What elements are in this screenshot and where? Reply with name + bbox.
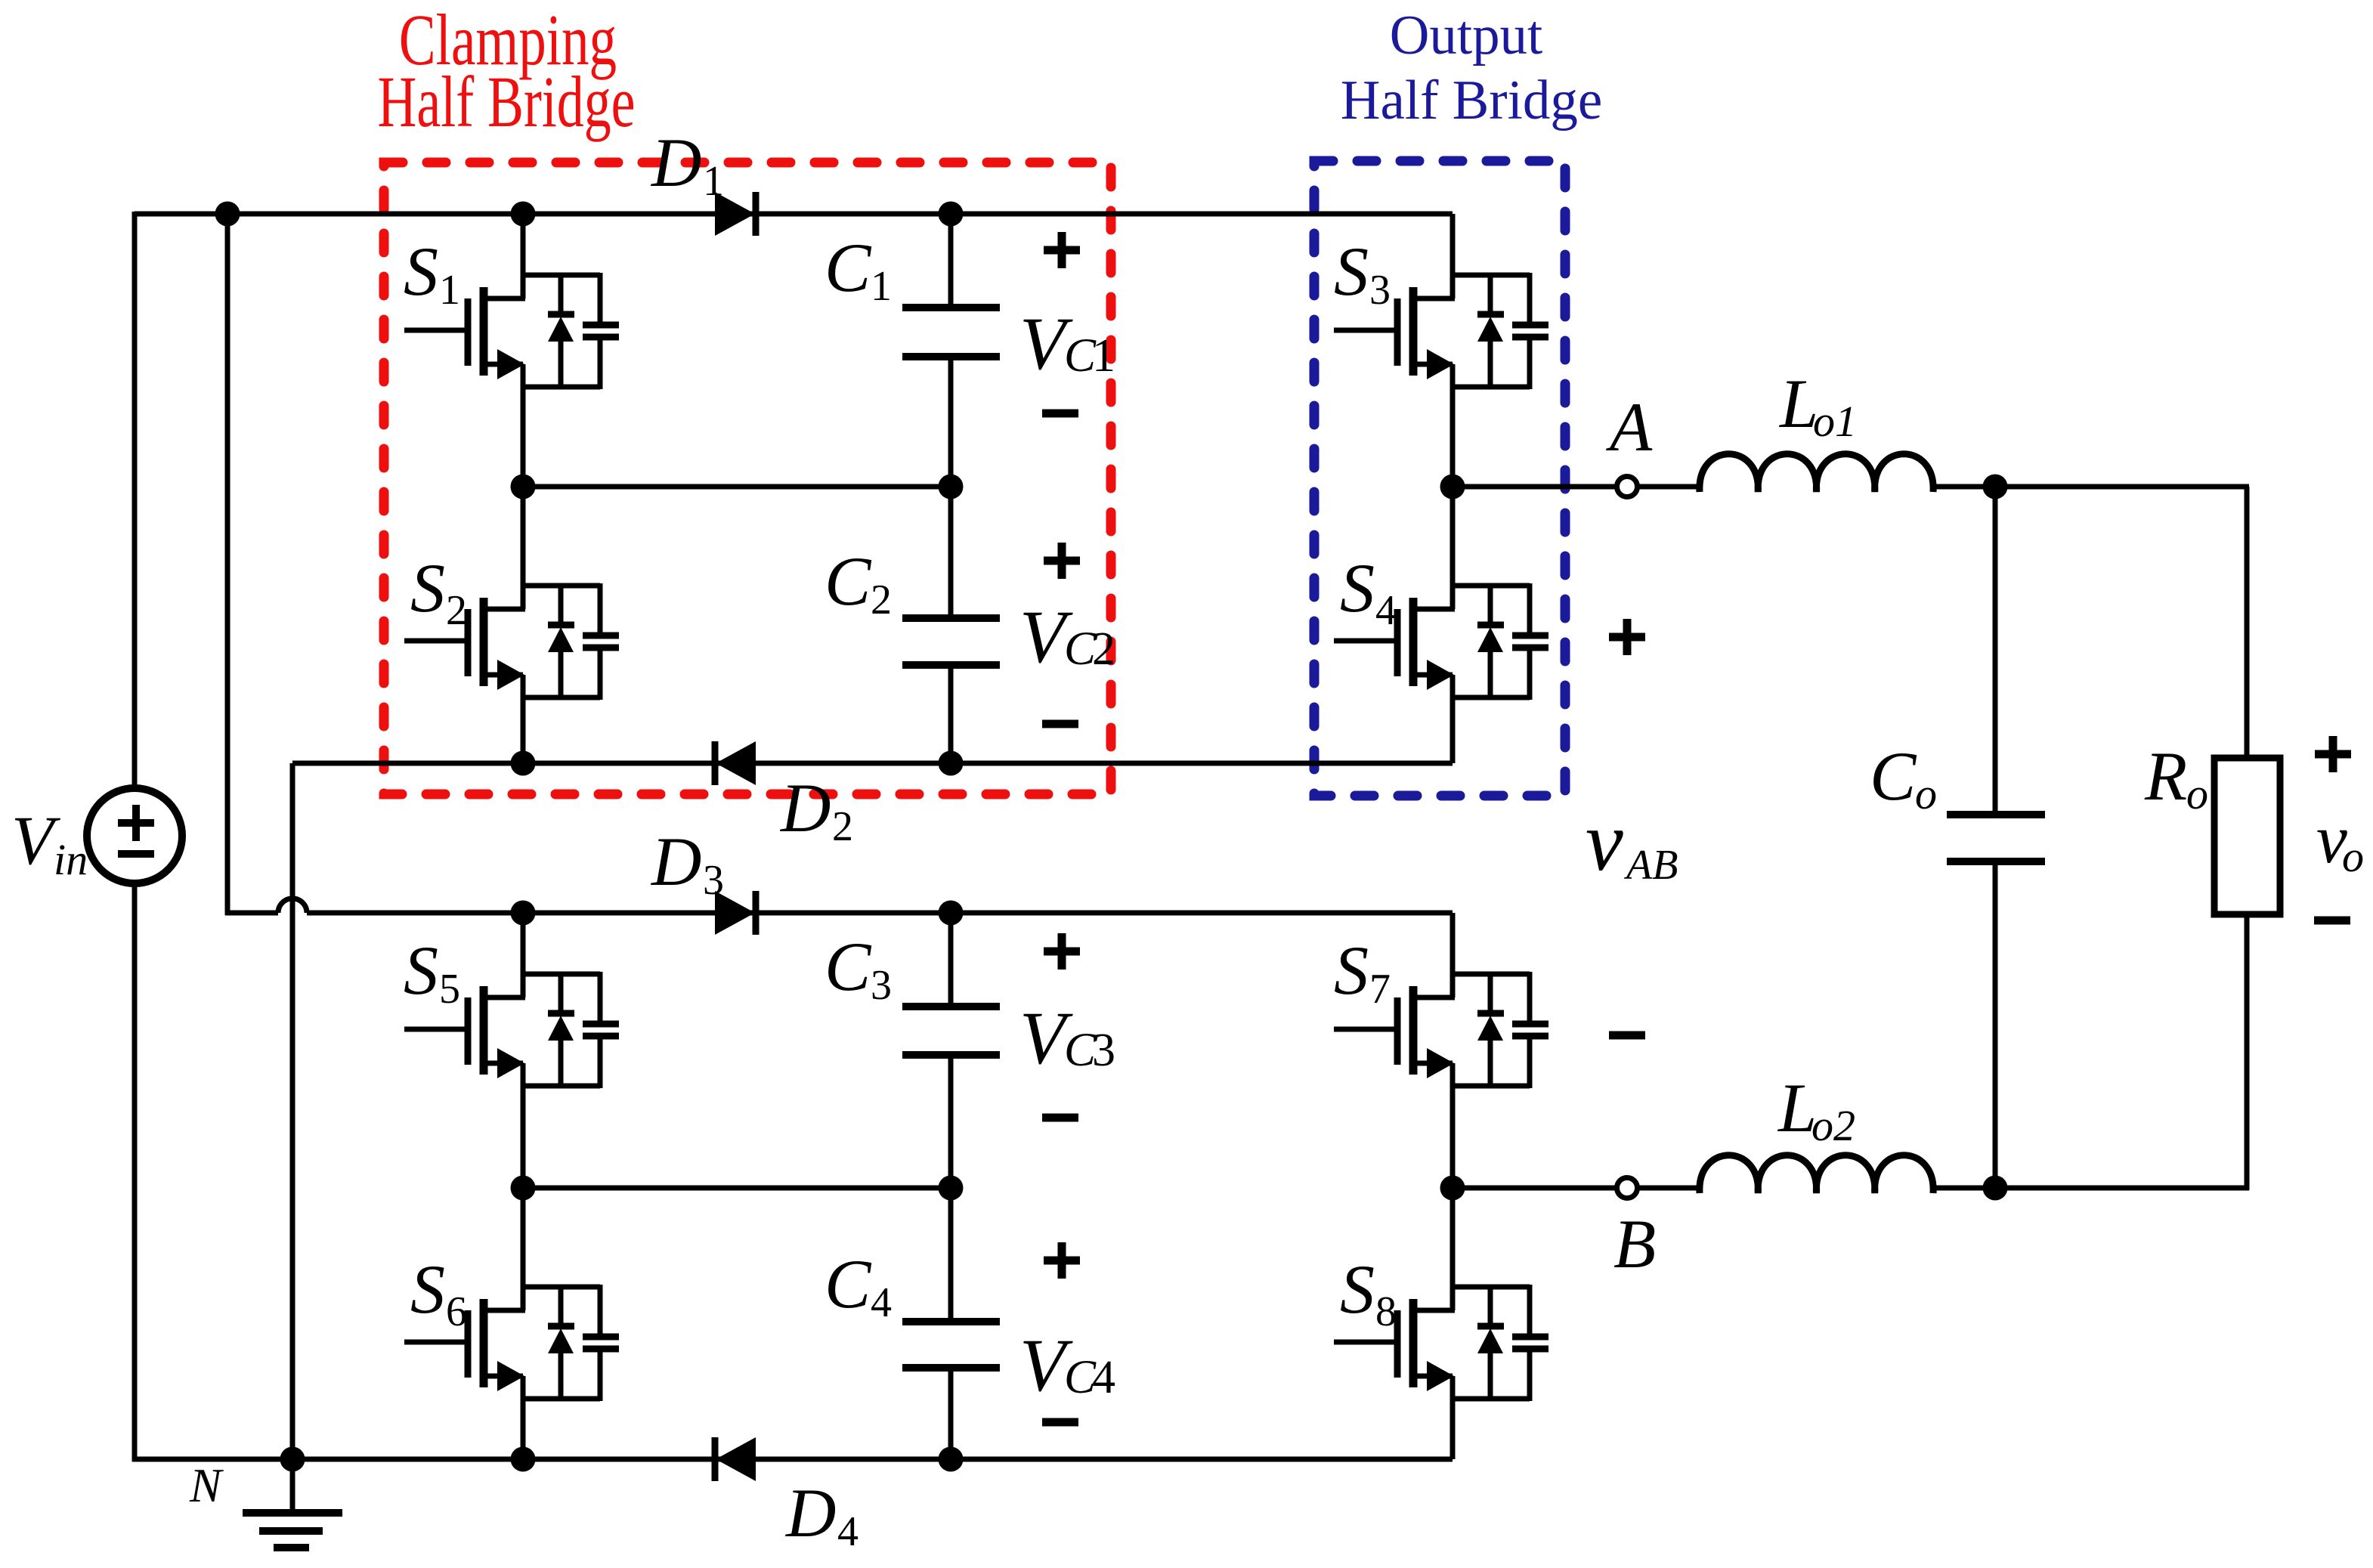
transistor S4 (MOSFET with body diode and parallel capacitor) [1334,487,1548,763]
svg-text:v: v [1586,795,1623,889]
svg-text:3: 3 [703,857,724,904]
ground symbol at node N [243,1459,342,1548]
transistor S3 (MOSFET with body diode and parallel capacitor) [1334,214,1548,487]
svg-text:AB: AB [1623,842,1678,889]
inductor Lo2 [1700,1155,1933,1193]
svg-text:5: 5 [439,966,460,1013]
node junction at 1258,1931 [939,1447,964,1472]
wire: lower rail (D3 rail) [307,911,1453,916]
svg-text:1: 1 [703,158,724,205]
transistor S2 (MOSFET with body diode and parallel capacitor) [404,487,619,763]
inductor Lo1 [1700,454,1933,492]
svg-text:D: D [784,1474,836,1551]
transistor S5 (MOSFET with body diode and parallel capacitor) [404,913,619,1188]
wire: upper mid wire (S1/S2 midpoint to C1/C2 midpoint) [523,484,951,490]
svg-text:8: 8 [1375,1288,1397,1335]
node B terminal circle [1617,1178,1638,1198]
node junction at 1258,1572 [939,1176,964,1201]
svg-text:o: o [2342,832,2364,881]
transistor S6 (MOSFET with body diode and parallel capacitor) [404,1188,619,1459]
svg-text:4: 4 [1375,587,1397,634]
diode D2 [715,741,756,785]
wire: node B wire from S7/S8 midpoint [1453,1186,1617,1191]
node junction at 1258,283 [939,202,964,227]
wire: lower rail left segment [225,911,278,916]
node junction at 2640,644 [1983,475,2008,499]
clamping half bridge dashed red box [384,162,1111,794]
svg-text:C: C [825,1245,872,1322]
polarity and value of C2 [1044,557,1080,565]
wire: N rail (bottom) [132,1457,1453,1462]
svg-text:6: 6 [446,1288,467,1335]
polarity and value of C3 [1044,948,1080,956]
wire: Lo1 to output node [1933,484,2249,490]
svg-text:C: C [1870,738,1917,815]
diode D4 [715,1437,756,1481]
node junction at 301,283 [215,202,240,227]
svg-text:4: 4 [1092,1352,1115,1403]
svg-text:D: D [650,124,701,201]
svg-text:Output: Output [1390,5,1542,66]
node junction at 692,1010 [511,751,536,776]
wire: Vin bottom lead down to N rail [132,883,138,1461]
svg-text:A: A [1605,388,1653,465]
svg-text:S: S [404,932,438,1009]
node junction at 2640,1572 [1983,1176,2008,1201]
svg-text:o: o [2186,769,2208,818]
svg-text:1: 1 [1092,330,1115,382]
node junction at 692,1572 [511,1176,536,1201]
wire: lower mid wire (C3/C4 midpoint) [523,1186,951,1191]
svg-text:Half Bridge: Half Bridge [378,62,636,142]
wire hop over vertical at x=387 [278,898,307,913]
capacitor C1 [902,214,1000,487]
wire: third vertical (upper-bottom rail to N rail) [290,763,295,1459]
svg-text:S: S [1334,233,1369,310]
svg-text:S: S [410,549,445,626]
svg-text:2: 2 [446,587,467,634]
node junction at 692,1208 [511,901,536,926]
svg-text:2: 2 [871,577,892,623]
wire: Vin top lead (left column) [132,212,138,789]
svg-text:C: C [825,928,872,1005]
transistor S1 (MOSFET with body diode and parallel capacitor) [404,214,619,487]
svg-text:D: D [650,823,701,900]
node junction at 692,283 [511,202,536,227]
svg-text:S: S [1340,549,1375,626]
svg-text:S: S [404,233,438,310]
node junction at 1258,644 [939,475,964,499]
transistor S7 (MOSFET with body diode and parallel capacitor) [1334,913,1548,1188]
svg-text:S: S [1334,932,1369,1009]
wire: S4 source corner [1450,760,1456,763]
node junction at 387,1931 [280,1447,305,1472]
polarity and value of C4 [1044,1257,1080,1265]
wire: B rail to Ro [1933,1186,2249,1191]
svg-text:S: S [410,1251,445,1328]
node junction at 692,644 [511,475,536,499]
wire: Ro bottom lead [2245,914,2250,1190]
svg-text:4: 4 [871,1279,892,1326]
svg-text:B: B [1613,1205,1656,1282]
capacitor C4 [902,1188,1000,1459]
svg-text:S: S [1340,1251,1375,1328]
svg-text:Half Bridge: Half Bridge [1341,70,1602,131]
node junction at 692,1931 [511,1447,536,1472]
wire: upper bottom rail (D2 rail) [292,761,1453,766]
diode D1 [715,192,756,236]
output voltage vo polarity [2315,750,2351,759]
svg-text:N: N [189,1459,224,1512]
voltage source Vin [87,788,182,883]
bridge voltage vAB polarity [1609,633,1645,642]
svg-text:o1: o1 [1813,397,1857,446]
svg-text:R: R [2144,738,2187,815]
node junction at 1922,644 [1440,475,1465,499]
resistor Ro [2214,758,2280,914]
node junction at 1922,1572 [1440,1176,1465,1201]
svg-text:C: C [825,543,872,620]
capacitor C3 [902,913,1000,1188]
node junction at 1258,1208 [939,901,964,926]
svg-text:2: 2 [1092,623,1115,675]
capacitor Co [1993,487,1998,815]
svg-text:3: 3 [871,962,892,1009]
wire: second vertical from top rail down to lower rail [225,214,230,915]
svg-text:D: D [779,769,831,846]
transistor S8 (MOSFET with body diode and parallel capacitor) [1334,1188,1548,1459]
polarity and value of C1 [1044,246,1080,255]
svg-text:in: in [54,835,88,884]
svg-text:3: 3 [1369,267,1391,314]
wire: Ro top lead [2245,487,2250,758]
svg-text:o2: o2 [1811,1101,1855,1150]
svg-text:4: 4 [837,1508,859,1555]
svg-text:2: 2 [832,803,853,850]
svg-text:7: 7 [1369,966,1391,1013]
wire: top rail [135,212,1453,217]
svg-text:3: 3 [1092,1025,1115,1076]
diode D3 [715,891,756,935]
output half bridge dashed blue box [1314,161,1565,796]
svg-text:o: o [1915,769,1937,818]
svg-text:C: C [825,229,872,306]
svg-text:1: 1 [439,267,460,314]
wire: node A wire from S3/S4 midpoint [1453,484,1617,490]
svg-text:1: 1 [871,263,892,310]
capacitor C2 [902,487,1000,763]
node junction at 1258,1010 [939,751,964,776]
node A terminal circle [1617,477,1638,497]
